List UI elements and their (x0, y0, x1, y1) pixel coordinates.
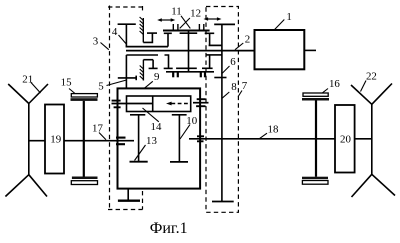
shaft 13 foot (130, 161, 148, 163)
svg-text:12: 12 (190, 8, 201, 20)
leader 10 (180, 125, 190, 140)
leader lines (31, 16, 366, 161)
svg-text:4: 4 (112, 26, 118, 38)
hatched frame wall top (140, 17, 144, 42)
svg-text:3: 3 (93, 35, 99, 47)
wheel 22 (351, 84, 395, 198)
gear tooth T1 (147, 32, 157, 34)
engine box 1 (255, 30, 305, 69)
leader 6 (222, 66, 230, 74)
shaft 10 foot (170, 161, 188, 163)
left hub bar lower (114, 106, 121, 108)
leader 21 (31, 83, 41, 94)
final drive 20 (335, 105, 355, 173)
carrier teeth (172, 72, 174, 78)
left drum wall (125, 55, 127, 89)
planetary housing 9 (118, 88, 201, 188)
bracket right leg (152, 60, 154, 69)
svg-text:14: 14 (151, 121, 162, 133)
wire (355, 138, 372, 140)
leader 5 (107, 80, 127, 86)
engine output stub (304, 49, 316, 51)
svg-text:22: 22 (366, 71, 377, 83)
svg-text:13: 13 (146, 135, 157, 147)
gear tooth T2 (164, 32, 172, 34)
leader 8 (222, 92, 229, 98)
vertical shaft 8 (221, 24, 223, 201)
leader 22 (361, 81, 367, 92)
right output shaft 18 (189, 138, 335, 140)
bracket foot (149, 67, 158, 69)
leader 3 (101, 43, 109, 50)
shaft 8 bottom foot (212, 201, 234, 203)
svg-text:17: 17 (92, 122, 103, 134)
gear tooth row y68 right (202, 67, 213, 69)
gearbox housing dashed box 3 (108, 6, 143, 210)
bar on shaft 8 (206, 54, 222, 56)
leader 14 (143, 108, 159, 122)
right hub mid bar (193, 102, 209, 104)
brake 16 symbol (302, 93, 329, 184)
svg-text:2: 2 (245, 34, 250, 46)
leader 18 (260, 133, 268, 138)
svg-text:15: 15 (61, 77, 72, 89)
svg-text:8: 8 (231, 81, 237, 93)
leader 2 (235, 43, 243, 50)
leader 15 (69, 89, 75, 94)
brake 4 top bar (118, 23, 136, 25)
leader 9 (144, 81, 153, 88)
hatched frame wall mid (140, 60, 144, 81)
svg-text:1: 1 (286, 11, 291, 23)
svg-text:18: 18 (268, 123, 279, 135)
brake 15 symbol (71, 94, 98, 185)
leader 17 (99, 133, 106, 140)
svg-text:Фиг.1: Фиг.1 (150, 220, 188, 237)
leader 7 (238, 91, 242, 97)
svg-text:5: 5 (98, 80, 104, 92)
sun shaft (188, 31, 190, 72)
reverse gear line 5 (118, 77, 136, 79)
upper drum bottom (126, 46, 168, 48)
svg-text:11: 11 (171, 6, 182, 18)
second shaft top line (126, 54, 158, 56)
left output shaft 17 (29, 140, 45, 142)
carrier top plate (166, 71, 214, 73)
right drum foot (209, 44, 222, 46)
bar on shaft 8 lower (214, 77, 226, 79)
svg-text:21: 21 (22, 73, 33, 85)
T4 drum wall (209, 33, 211, 45)
leader 13 (135, 145, 146, 161)
svg-text:19: 19 (50, 134, 61, 146)
clutch 11 jaws (172, 24, 174, 31)
top right bar (214, 23, 235, 25)
svg-text:6: 6 (230, 56, 236, 68)
svg-text:9: 9 (154, 71, 159, 83)
input top shaft rail (163, 30, 210, 32)
left hub bar upper (112, 100, 121, 102)
housing bottom stem (127, 189, 129, 200)
svg-text:20: 20 (340, 134, 351, 146)
svg-text:16: 16 (329, 78, 340, 90)
svg-text:7: 7 (242, 80, 248, 92)
its stem (209, 55, 211, 68)
clutch 12 jaws (198, 24, 200, 31)
housing bottom foot (118, 200, 140, 202)
left hub mid bar / piston rod (112, 103, 153, 105)
leader 12 (180, 18, 190, 28)
leader 4 (119, 35, 127, 44)
T2 stem (167, 33, 169, 46)
dashed rod with arrow (166, 102, 191, 106)
corner into T-stem (165, 55, 169, 68)
gear tooth row y68 sun (176, 67, 197, 69)
wire (64, 140, 134, 142)
brake 4 stem / drum wall (125, 24, 127, 46)
hydraulic cylinder 14 box (127, 96, 191, 112)
leader 1 (275, 20, 285, 30)
left planet bar (130, 114, 145, 116)
right planet bar (172, 114, 187, 116)
right output caps (197, 135, 204, 137)
wheel 21 (5, 84, 48, 197)
leader 16 (323, 89, 329, 93)
brake drum cup (143, 33, 152, 42)
shift arrow 12 (204, 17, 222, 20)
shift arrow 11 (157, 18, 175, 21)
planet shaft 10 (178, 115, 180, 162)
its tooth tick (135, 76, 137, 81)
brake 5 bracket bar (143, 59, 153, 61)
leader 11 (181, 16, 190, 29)
range box dashed box 7 (206, 7, 238, 213)
final drive 19 (45, 105, 64, 174)
sun gear bar T3 (180, 32, 198, 34)
left output caps (116, 137, 126, 139)
right hub bar lower (196, 105, 205, 107)
input shaft 2 (126, 50, 255, 52)
gear tooth row y68 left (164, 67, 173, 69)
right hub bar upper (197, 98, 206, 100)
gear tooth T4 (205, 32, 215, 34)
planet shaft 13 (138, 115, 140, 162)
piston divider (152, 96, 154, 112)
svg-text:10: 10 (186, 115, 197, 127)
